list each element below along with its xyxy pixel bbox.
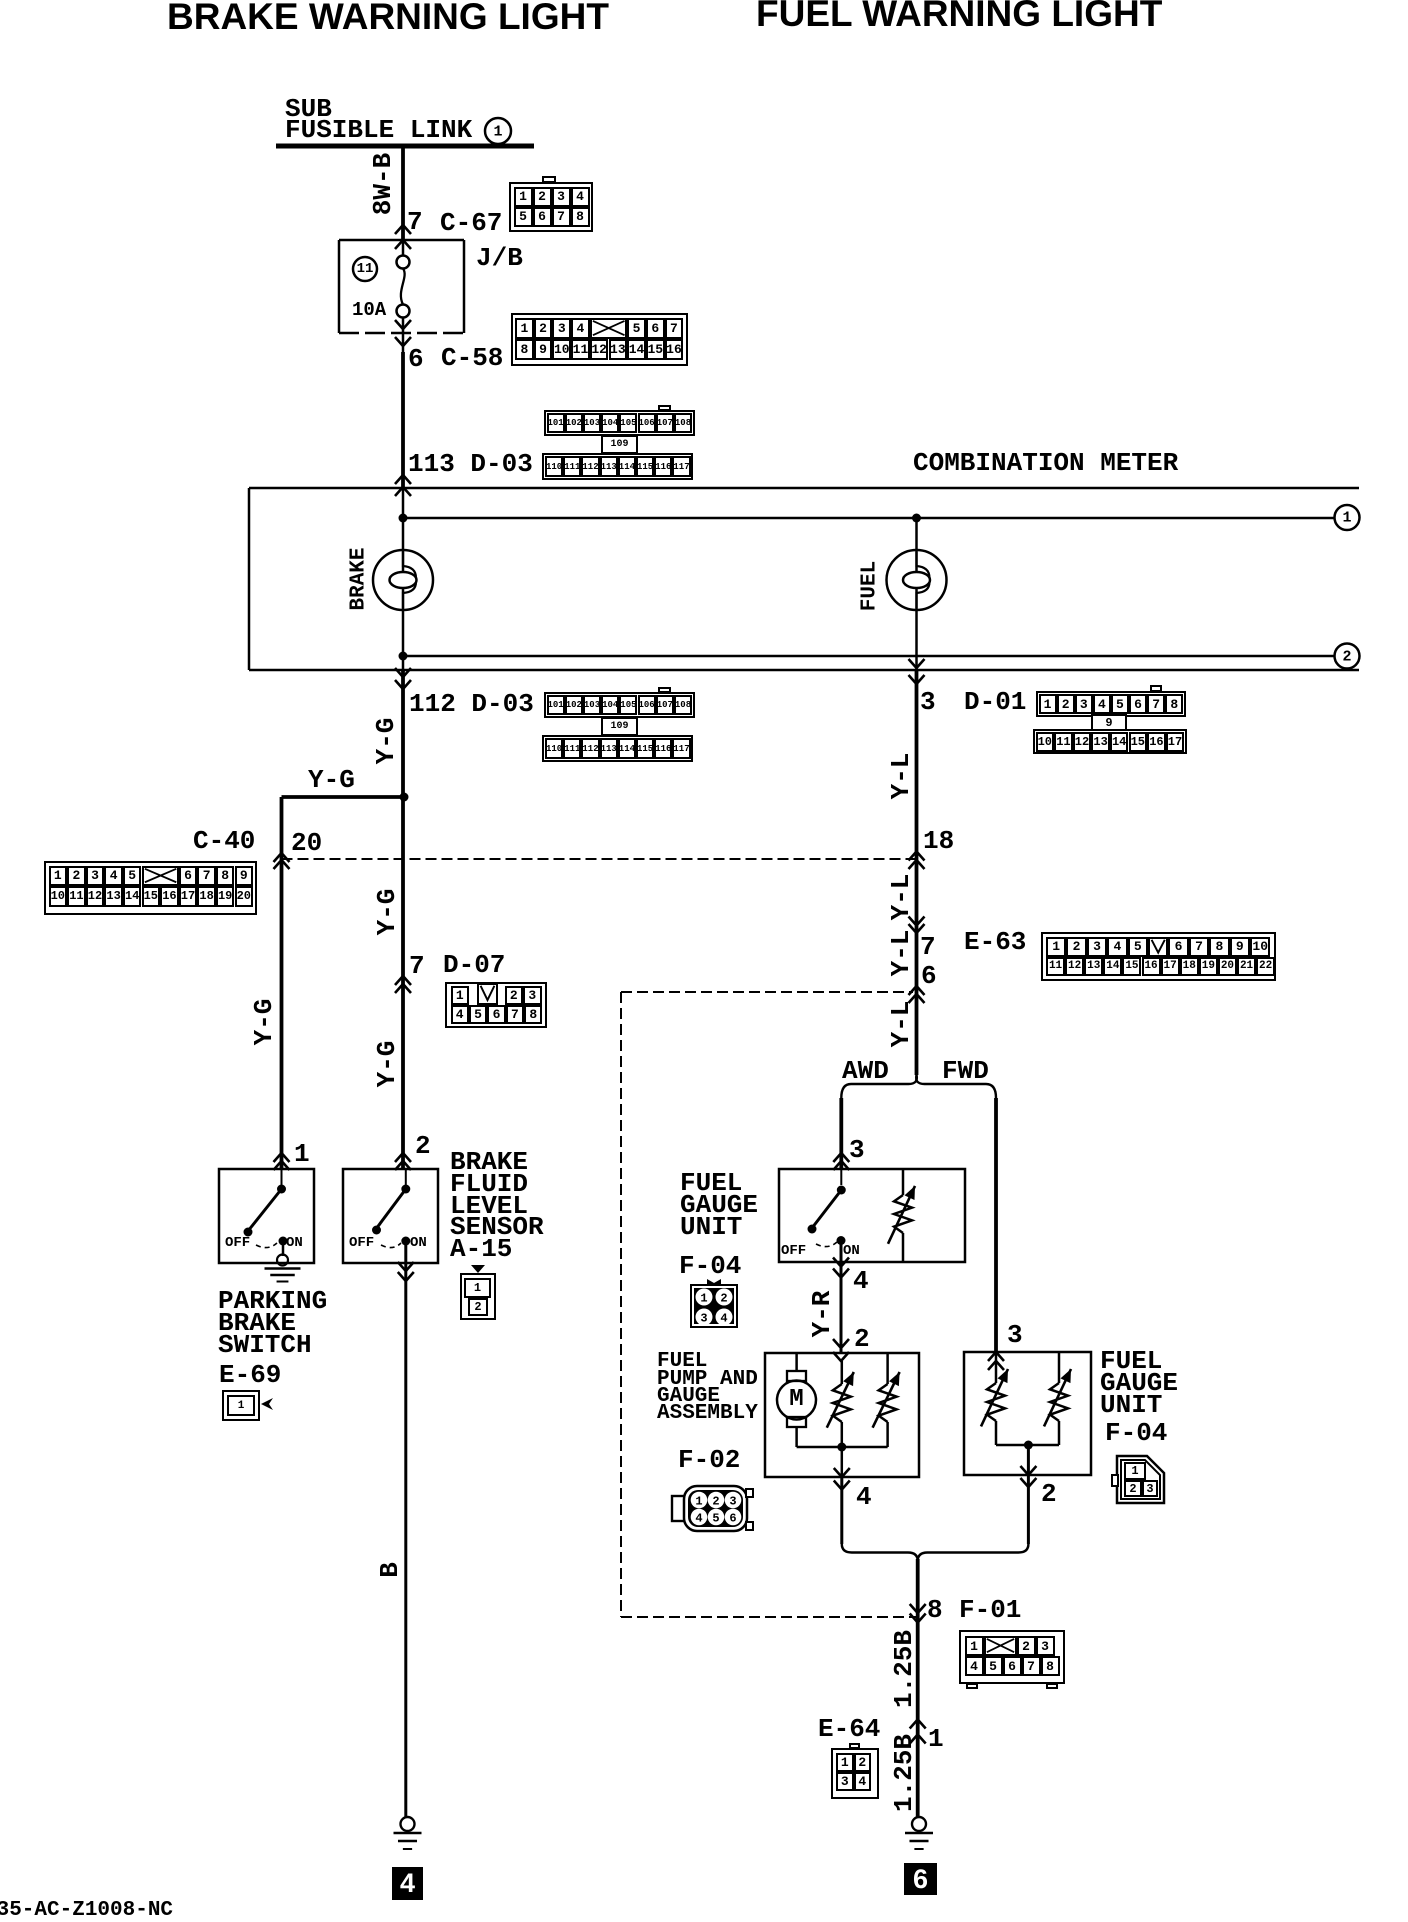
- svg-text:4: 4: [720, 1312, 727, 1326]
- svg-text:3: 3: [729, 1495, 736, 1509]
- svg-text:4: 4: [695, 1512, 702, 1526]
- svg-text:6: 6: [729, 1512, 736, 1526]
- svg-text:1: 1: [700, 1292, 707, 1306]
- svg-text:1: 1: [695, 1495, 702, 1509]
- svg-text:5: 5: [712, 1512, 719, 1526]
- svg-text:2: 2: [712, 1495, 719, 1509]
- svg-text:2: 2: [720, 1292, 727, 1306]
- svg-text:3: 3: [700, 1312, 707, 1326]
